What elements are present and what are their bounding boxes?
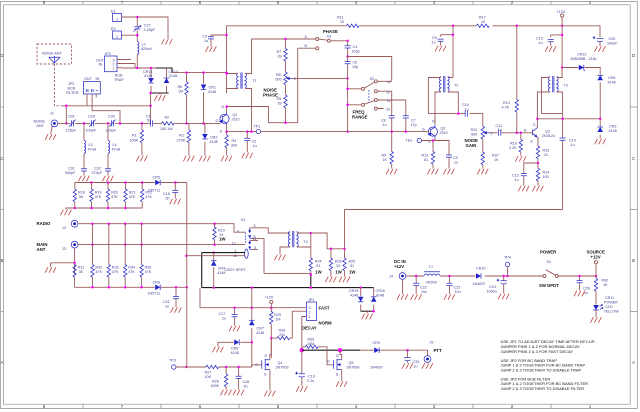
svg-text:2N4124: 2N4124 bbox=[542, 134, 555, 138]
svg-text:BCB: BCB bbox=[115, 74, 123, 78]
diode CR10 bbox=[476, 273, 481, 279]
capacitor C26 bbox=[579, 276, 581, 291]
svg-text:R21: R21 bbox=[129, 191, 136, 195]
svg-text:NOISE ANT: NOISE ANT bbox=[42, 52, 62, 56]
svg-text:+12V: +12V bbox=[557, 10, 566, 14]
svg-text:Q4: Q4 bbox=[278, 361, 283, 365]
svg-text:J1: J1 bbox=[50, 112, 54, 116]
svg-text:R13: R13 bbox=[503, 101, 510, 105]
svg-text:39: 39 bbox=[278, 55, 282, 59]
ground (C9) bbox=[435, 46, 446, 51]
svg-text:47K: 47K bbox=[112, 270, 119, 274]
svg-text:500: 500 bbox=[276, 78, 282, 82]
jumper JP1 bbox=[307, 302, 317, 321]
capacitor C19 bbox=[301, 350, 303, 386]
connector J2 bbox=[71, 220, 78, 227]
wire diode to J5 bbox=[380, 350, 428, 355]
svg-text:RADIO: RADIO bbox=[37, 221, 52, 226]
svg-text:R18: R18 bbox=[78, 191, 85, 195]
svg-text:D: D bbox=[222, 105, 225, 109]
svg-text:1N4007: 1N4007 bbox=[473, 282, 486, 286]
svg-text:s1: s1 bbox=[387, 80, 391, 84]
inductor L1 bbox=[424, 272, 440, 276]
T2 left bottom pin to Q2 drain bbox=[435, 92, 441, 125]
svg-text:3K: 3K bbox=[79, 270, 84, 274]
svg-text:R34: R34 bbox=[128, 266, 135, 270]
ground (R4) bbox=[221, 156, 232, 161]
junction dot bbox=[149, 92, 152, 95]
svg-text:POWER: POWER bbox=[540, 250, 557, 255]
svg-text:C28: C28 bbox=[68, 115, 75, 119]
capacitor C9 bbox=[441, 35, 453, 46]
ground (C33) bbox=[402, 364, 413, 369]
svg-text:+: + bbox=[296, 372, 298, 376]
ground (bank1) bbox=[66, 208, 75, 210]
potentiometer R8 bbox=[285, 64, 287, 72]
ground (C3) bbox=[206, 47, 217, 52]
svg-text:+12V: +12V bbox=[265, 296, 274, 300]
svg-text:G: G bbox=[422, 128, 425, 132]
svg-text:C29: C29 bbox=[88, 115, 95, 119]
svg-text:CR5: CR5 bbox=[153, 176, 160, 180]
svg-text:.1u: .1u bbox=[252, 144, 257, 148]
svg-text:E2: E2 bbox=[111, 27, 116, 31]
svg-text:.1u: .1u bbox=[221, 317, 226, 321]
svg-text:2: 2 bbox=[294, 77, 296, 81]
svg-text:JUMP 2 & 3 TOGETHER TO DISABLE: JUMP 2 & 3 TOGETHER TO DISABLE FILTER bbox=[501, 386, 585, 391]
connector J5 PTT bbox=[424, 356, 431, 363]
svg-text:1N5250B - 215v: 1N5250B - 215v bbox=[570, 57, 597, 61]
wire C6 bottom to S2 poles bbox=[348, 89, 362, 132]
frame zone numbers bottom bbox=[43, 404, 592, 409]
capacitor C6 bbox=[347, 57, 349, 100]
svg-text:R11: R11 bbox=[337, 16, 344, 20]
resistor R4 bbox=[226, 132, 228, 156]
T3 right pins bbox=[557, 68, 563, 119]
svg-text:150pF: 150pF bbox=[106, 129, 117, 133]
svg-text:R13: R13 bbox=[422, 154, 429, 158]
svg-text:PTT: PTT bbox=[434, 348, 442, 353]
svg-text:C2: C2 bbox=[252, 140, 257, 144]
ground (C12) bbox=[518, 186, 529, 191]
resistor R31 bbox=[73, 265, 76, 278]
ground (R3) bbox=[184, 156, 195, 161]
wire RADIO row bbox=[78, 224, 245, 233]
svg-text:IN: IN bbox=[96, 77, 100, 81]
T1 right pin wires bbox=[245, 39, 252, 132]
wire J1 row bbox=[58, 122, 151, 124]
ground (C24) bbox=[498, 294, 509, 299]
transformer T1 bbox=[237, 73, 247, 89]
ground (C2) bbox=[242, 153, 253, 158]
svg-text:270K: 270K bbox=[177, 139, 186, 143]
svg-text:300: 300 bbox=[231, 144, 237, 148]
svg-text:FAST: FAST bbox=[319, 306, 330, 311]
resistor R11 bbox=[346, 24, 359, 27]
T4 left bottom pin to ground bbox=[280, 247, 290, 255]
bank1 bottom bus bbox=[75, 207, 142, 209]
T4 right pins bbox=[297, 233, 311, 247]
junction dot drain node bbox=[270, 337, 273, 340]
ground (CR11) bbox=[591, 318, 602, 323]
svg-text:100K: 100K bbox=[211, 384, 220, 388]
K1 pin 8 stub bbox=[252, 239, 264, 274]
resistor R19 bbox=[91, 183, 93, 209]
jumper JP3 bbox=[84, 82, 101, 95]
transformer T3 bbox=[548, 76, 558, 92]
svg-text:R35: R35 bbox=[145, 266, 152, 270]
svg-text:R20: R20 bbox=[111, 191, 118, 195]
capacitor C12 bbox=[524, 163, 538, 186]
CR15/16 bottom black bar bbox=[361, 310, 374, 312]
capacitor C23 bbox=[449, 276, 451, 294]
ground (R25) bbox=[339, 277, 350, 282]
diode CR3 bbox=[599, 119, 601, 139]
svg-text:TP2: TP2 bbox=[406, 139, 413, 143]
output row y118.8 bbox=[537, 118, 600, 120]
svg-text:C46: C46 bbox=[243, 380, 250, 384]
capacitor C25 bbox=[599, 42, 601, 46]
junction dots J1 row bbox=[83, 122, 86, 125]
svg-text:S3: S3 bbox=[327, 35, 332, 39]
svg-text:CR16: CR16 bbox=[376, 289, 385, 293]
svg-text:1N5711: 1N5711 bbox=[148, 292, 161, 296]
svg-text:4148: 4148 bbox=[210, 140, 218, 144]
svg-text:C30: C30 bbox=[108, 115, 115, 119]
svg-text:R15: R15 bbox=[543, 149, 550, 153]
svg-text:500: 500 bbox=[471, 133, 477, 137]
wire K1 pin8 column bottom row bbox=[264, 272, 311, 274]
ground (C22) bbox=[411, 295, 422, 300]
svg-text:C6: C6 bbox=[353, 61, 358, 65]
transformer T4 bbox=[288, 231, 298, 247]
capacitor C29 bbox=[91, 120, 93, 126]
resistor R13a (source) bbox=[432, 141, 434, 169]
svg-text:47uH: 47uH bbox=[112, 148, 121, 152]
capacitor C4 bbox=[347, 41, 349, 57]
svg-text:4148: 4148 bbox=[217, 271, 225, 275]
svg-text:CR4: CR4 bbox=[218, 267, 225, 271]
svg-text:10M: 10M bbox=[307, 342, 314, 346]
svg-text:1M: 1M bbox=[178, 90, 183, 94]
junction dots bbox=[225, 105, 228, 108]
bus1 to decay section bbox=[161, 286, 187, 288]
svg-text:R27: R27 bbox=[205, 371, 212, 375]
svg-text:C26: C26 bbox=[583, 287, 590, 291]
wire phase B stub bbox=[298, 47, 316, 49]
test point TP3 bbox=[172, 365, 176, 369]
capacitor C5 bbox=[446, 155, 452, 157]
svg-text:51: 51 bbox=[336, 264, 340, 268]
ground (T4) bbox=[275, 255, 286, 260]
svg-text:RANGE: RANGE bbox=[352, 115, 368, 120]
svg-text:CR7: CR7 bbox=[257, 327, 264, 331]
svg-text:R25: R25 bbox=[349, 260, 356, 264]
test point TP4 bbox=[505, 262, 509, 266]
resistor R25 bbox=[344, 249, 346, 277]
junction dot emitter chain bbox=[537, 162, 540, 165]
diode CR6 bbox=[155, 285, 160, 291]
switch S1 POWER bbox=[543, 275, 546, 278]
svg-text:47K: 47K bbox=[145, 270, 152, 274]
svg-text:1W: 1W bbox=[349, 270, 356, 275]
svg-text:JUMPER PINS 2 & 3 FOR FAST DEC: JUMPER PINS 2 & 3 FOR FAST DECAY bbox=[501, 349, 574, 354]
capacitor C22 bbox=[415, 276, 417, 294]
svg-text:R31: R31 bbox=[78, 266, 85, 270]
wire C11 to Q3 base bbox=[501, 132, 533, 134]
junction dots bus bbox=[185, 71, 188, 74]
transistor Q2 J310 bbox=[428, 127, 437, 136]
gray decay bus bbox=[202, 253, 361, 288]
test point TP2 bbox=[417, 138, 421, 142]
wire phase A stub bbox=[252, 38, 316, 40]
K1 pin 11 stub bbox=[250, 240, 258, 242]
diode CR6 (up) bbox=[597, 75, 603, 80]
svg-text:.1u: .1u bbox=[431, 41, 436, 45]
black wire to CR15/16 bbox=[310, 275, 312, 288]
capacitor C31 bbox=[81, 169, 87, 171]
svg-text:10: 10 bbox=[481, 20, 485, 24]
resistor R32 bbox=[92, 224, 94, 288]
diode CR14 bbox=[166, 68, 168, 93]
resistor R20 bbox=[107, 183, 109, 209]
junction dot bbox=[284, 38, 287, 41]
ground (C25) bbox=[595, 47, 606, 52]
ground (C21) bbox=[171, 308, 182, 313]
svg-text:+12V: +12V bbox=[591, 255, 601, 260]
svg-text:1u: 1u bbox=[165, 305, 169, 309]
diode CR5 bbox=[155, 180, 160, 186]
svg-text:ANT: ANT bbox=[37, 247, 46, 252]
transistor Q5 2N7000 bbox=[334, 359, 342, 370]
K1 pin 5 wire to T4 bbox=[250, 228, 290, 233]
resistor R36 bbox=[302, 347, 334, 365]
diode CR16 bbox=[373, 288, 375, 312]
antenna feed row bbox=[62, 106, 151, 124]
svg-text:1K: 1K bbox=[383, 158, 388, 162]
transformer T2 bbox=[439, 76, 449, 92]
wire R6/CR1 bus (y 72.6) bbox=[172, 72, 227, 74]
svg-text:1M: 1M bbox=[275, 318, 280, 322]
svg-text:CR12: CR12 bbox=[577, 53, 586, 57]
black line decay node to Q5 bbox=[302, 349, 360, 351]
resistor R16 bbox=[520, 133, 522, 156]
svg-text:.1u: .1u bbox=[203, 39, 208, 43]
svg-text:C19: C19 bbox=[308, 375, 315, 379]
svg-text:C: C bbox=[533, 123, 536, 127]
svg-text:IN: IN bbox=[99, 63, 103, 67]
svg-text:POWER: POWER bbox=[604, 301, 618, 305]
svg-text:VR200: VR200 bbox=[426, 281, 437, 285]
svg-text:R23: R23 bbox=[218, 229, 225, 233]
svg-text:CR6: CR6 bbox=[153, 281, 160, 285]
test point TP1 bbox=[256, 129, 260, 133]
svg-text:S2: S2 bbox=[370, 77, 375, 81]
svg-text:1K: 1K bbox=[494, 158, 499, 162]
diode CR4 bbox=[213, 253, 215, 288]
svg-text:CR10: CR10 bbox=[476, 267, 485, 271]
svg-text:DECAY: DECAY bbox=[302, 326, 317, 331]
frame zone ticks top bbox=[83, 2, 551, 5]
wire MAIN row bbox=[78, 244, 245, 246]
wire to PTT diode bbox=[360, 349, 374, 351]
svg-text:T3: T3 bbox=[564, 84, 568, 88]
resistor R35 bbox=[141, 224, 143, 288]
svg-text:FILTER: FILTER bbox=[66, 91, 79, 95]
Q4 source wire to ground bbox=[269, 370, 271, 391]
capacitor C10 bbox=[465, 111, 467, 117]
wire Q3 emitter to R15 bbox=[536, 137, 539, 168]
wire bus1 corner to CR7 bbox=[251, 288, 253, 367]
svg-text:Q5: Q5 bbox=[349, 361, 354, 365]
svg-text:Q3: Q3 bbox=[545, 130, 550, 134]
svg-text:5n: 5n bbox=[147, 119, 151, 123]
K1 pin 3 wire bbox=[252, 248, 258, 250]
svg-text:D: D bbox=[336, 354, 339, 358]
svg-text:J3: J3 bbox=[62, 247, 66, 251]
Q5 drain wire bbox=[340, 350, 342, 360]
svg-text:4148: 4148 bbox=[169, 74, 177, 78]
svg-text:L4: L4 bbox=[113, 143, 117, 147]
inductor L2 bbox=[137, 42, 139, 55]
antenna symbol bbox=[49, 56, 60, 64]
svg-text:C17: C17 bbox=[219, 312, 226, 316]
transistor Q3 2N4124 bbox=[533, 128, 538, 138]
svg-text:NORM: NORM bbox=[319, 321, 333, 326]
svg-text:R4: R4 bbox=[232, 139, 237, 143]
wire Q3 collector up to output row bbox=[536, 119, 538, 128]
bottom bus y287.3 bbox=[75, 286, 155, 288]
capacitor C30 bbox=[111, 120, 113, 126]
svg-text:R7: R7 bbox=[277, 50, 282, 54]
ground (C5) bbox=[444, 169, 455, 174]
LED CR11 bbox=[593, 305, 599, 310]
ground (C17) bbox=[229, 326, 240, 331]
svg-text:C31: C31 bbox=[68, 167, 75, 171]
svg-text:R37: R37 bbox=[492, 154, 499, 158]
svg-text:100 1W: 100 1W bbox=[160, 127, 173, 131]
resistor R14 bbox=[536, 168, 539, 181]
svg-text:R5: R5 bbox=[277, 97, 282, 101]
svg-text:1N4007: 1N4007 bbox=[370, 366, 383, 370]
terminal E1 bbox=[113, 14, 122, 22]
svg-text:.1u: .1u bbox=[497, 128, 502, 132]
svg-text:10: 10 bbox=[386, 108, 390, 112]
capacitor C32 bbox=[105, 169, 111, 171]
svg-text:CR8: CR8 bbox=[231, 347, 238, 351]
svg-text:13: 13 bbox=[232, 242, 236, 246]
ground (trap bar) bbox=[159, 93, 161, 95]
svg-text:R22: R22 bbox=[145, 191, 152, 195]
K1 contact set 1 bbox=[248, 230, 251, 233]
svg-text:R2: R2 bbox=[165, 116, 170, 120]
svg-text:E1: E1 bbox=[111, 10, 116, 14]
capacitor C2 bbox=[246, 132, 248, 153]
K1 coil pin wires bbox=[202, 252, 245, 254]
diode CR13 bbox=[150, 68, 152, 93]
ground (R9) bbox=[386, 169, 397, 174]
wire trap output down bbox=[150, 93, 152, 123]
svg-text:4148: 4148 bbox=[376, 294, 384, 298]
wire Q2 source row bbox=[422, 139, 450, 156]
diode CR15 bbox=[360, 288, 362, 312]
svg-text:GAIN: GAIN bbox=[466, 143, 477, 148]
svg-text:100K: 100K bbox=[130, 139, 139, 143]
svg-text:270pF: 270pF bbox=[92, 171, 103, 175]
resistor R1 bbox=[141, 123, 143, 155]
svg-text:C: C bbox=[0, 156, 3, 161]
svg-text:51: 51 bbox=[316, 264, 320, 268]
bus2 y307.7 bbox=[200, 288, 307, 308]
ground (J5) bbox=[427, 361, 429, 364]
svg-text:R9: R9 bbox=[382, 154, 387, 158]
wire DC row bbox=[406, 275, 543, 277]
resistor R13 (4.7K) bbox=[516, 26, 518, 133]
resistor R5 bbox=[285, 85, 287, 123]
ground (CR2) bbox=[200, 156, 211, 161]
wire L2 bottom to trap row bbox=[136, 54, 138, 68]
resistor R12b lower / R37 bbox=[482, 139, 484, 168]
svg-text:TP1: TP1 bbox=[254, 125, 261, 129]
svg-text:51: 51 bbox=[350, 264, 354, 268]
svg-text:39: 39 bbox=[278, 102, 282, 106]
frame zone letters sides bbox=[0, 53, 635, 365]
Q4 drain wire bbox=[270, 338, 271, 360]
svg-text:C16: C16 bbox=[163, 192, 170, 196]
svg-text:CR2: CR2 bbox=[210, 136, 217, 140]
svg-text:4148: 4148 bbox=[608, 81, 616, 85]
svg-text:R3: R3 bbox=[179, 134, 184, 138]
svg-text:JP2: JP2 bbox=[105, 52, 111, 56]
resistor R28 bbox=[225, 367, 227, 390]
wire node to ground bbox=[51, 263, 75, 267]
inductor L3 bbox=[83, 123, 85, 175]
svg-text:C: C bbox=[632, 156, 635, 161]
svg-text:C5: C5 bbox=[453, 156, 458, 160]
svg-text:.1u: .1u bbox=[570, 143, 575, 147]
wire E2 to C27 column bbox=[122, 17, 138, 42]
svg-text:540pF: 540pF bbox=[65, 171, 76, 175]
svg-text:R24: R24 bbox=[315, 260, 322, 264]
svg-text:1W: 1W bbox=[219, 237, 226, 242]
wire T4 to long row bbox=[311, 233, 345, 249]
svg-text:47K: 47K bbox=[95, 195, 102, 199]
svg-text:C24: C24 bbox=[489, 285, 496, 289]
svg-text:100uF: 100uF bbox=[607, 42, 618, 46]
svg-text:C14: C14 bbox=[569, 139, 576, 143]
CR15/CR16 top black bar bbox=[361, 287, 374, 289]
svg-text:.1u: .1u bbox=[464, 108, 469, 112]
wire Q1 source row bbox=[227, 126, 257, 132]
wire rail to T2 bbox=[448, 26, 453, 78]
capacitor C24 bbox=[503, 276, 505, 294]
svg-text:C21: C21 bbox=[163, 300, 170, 304]
svg-text:4148: 4148 bbox=[350, 294, 358, 298]
svg-text:100pF: 100pF bbox=[86, 129, 97, 133]
capacitor C28 bbox=[71, 120, 73, 126]
noise antenna dashed box bbox=[37, 44, 72, 64]
transistor Q4 2N7000 bbox=[262, 359, 270, 370]
ground (R14) bbox=[533, 186, 544, 191]
svg-text:820uH: 820uH bbox=[141, 47, 152, 51]
resistor R30 bbox=[595, 276, 597, 305]
svg-text:10: 10 bbox=[340, 20, 344, 24]
resistor R34 bbox=[124, 224, 126, 288]
diode CR1 bbox=[203, 73, 205, 124]
ground (C23) bbox=[444, 295, 455, 300]
svg-text:2.2K: 2.2K bbox=[509, 146, 517, 150]
wire R12 wiper to C11 bbox=[490, 132, 498, 134]
